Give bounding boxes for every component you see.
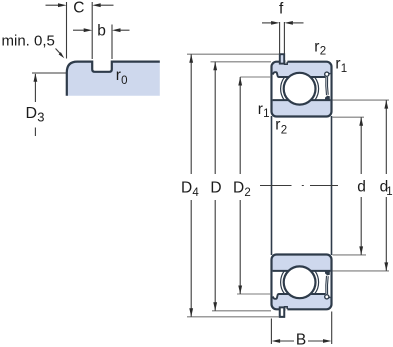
seal hook: [325, 72, 329, 76]
svg-text:r: r: [275, 117, 280, 134]
svg-text:r: r: [314, 38, 319, 55]
ball: [284, 73, 316, 105]
svg-text:1: 1: [341, 63, 347, 75]
seal groove notch top: [326, 73, 330, 75]
label D4: [181, 180, 199, 200]
svg-text:r: r: [335, 56, 340, 73]
dimension f: [262, 21, 304, 54]
label r0: [116, 67, 128, 87]
svg-text:D: D: [181, 180, 192, 197]
dimension B: [271, 312, 331, 345]
label r2 top: [314, 38, 326, 57]
svg-text:f: f: [279, 0, 284, 17]
svg-text:min. 0,5: min. 0,5: [2, 32, 55, 49]
svg-text:2: 2: [244, 187, 250, 199]
dimension D4: [187, 54, 279, 317]
dimension C arrows: [46, 3, 114, 7]
dimension D3: [32, 73, 66, 136]
svg-text:B: B: [296, 332, 306, 347]
dimension b extension line: [111, 25, 113, 60]
svg-text:2: 2: [281, 125, 287, 137]
outer ring land profile: [273, 72, 326, 77]
dimension C extension lines: [67, 2, 93, 59]
label D2: [233, 180, 251, 200]
svg-text:4: 4: [192, 187, 199, 199]
svg-text:3: 3: [37, 110, 44, 125]
snap ring tab: [280, 54, 284, 63]
cavity white: [273, 72, 331, 100]
dimension D2: [237, 77, 271, 294]
svg-text:b: b: [97, 22, 106, 39]
outer ring and inner ring block: [272, 62, 332, 117]
seal foot: [325, 96, 330, 100]
dimension d1: [333, 100, 390, 271]
centerline: [260, 185, 338, 187]
svg-text:d: d: [357, 179, 366, 196]
bore lines: [272, 116, 332, 255]
svg-text:2: 2: [320, 46, 326, 58]
seal body: [326, 77, 328, 95]
dimension d: [333, 117, 367, 255]
label r2 lower left: [275, 117, 287, 137]
dimension D: [211, 62, 272, 311]
svg-text:D: D: [26, 105, 38, 122]
inner ring shoulder line: [273, 99, 331, 101]
label D3: [26, 105, 45, 125]
dimension b arrows: [73, 28, 130, 32]
detail view ring section (left): [67, 62, 160, 96]
svg-text:D: D: [233, 180, 244, 197]
svg-text:1: 1: [386, 186, 392, 198]
svg-text:1: 1: [263, 108, 269, 120]
label r1 top right: [335, 56, 347, 75]
bearing lower section (mirror): [272, 255, 332, 317]
snap ring groove notch: [284, 60, 287, 64]
raceway edge arcs: [281, 70, 319, 108]
lower snap ring tab (white): [280, 307, 284, 316]
svg-text:C: C: [73, 0, 84, 16]
svg-text:D: D: [210, 180, 221, 197]
svg-text:r: r: [258, 101, 263, 118]
bearing upper section: [272, 54, 332, 116]
label d1: [380, 179, 393, 199]
leader arrow min 0,5: [56, 49, 65, 59]
svg-text:0: 0: [121, 75, 127, 87]
label r1 left: [258, 101, 270, 120]
